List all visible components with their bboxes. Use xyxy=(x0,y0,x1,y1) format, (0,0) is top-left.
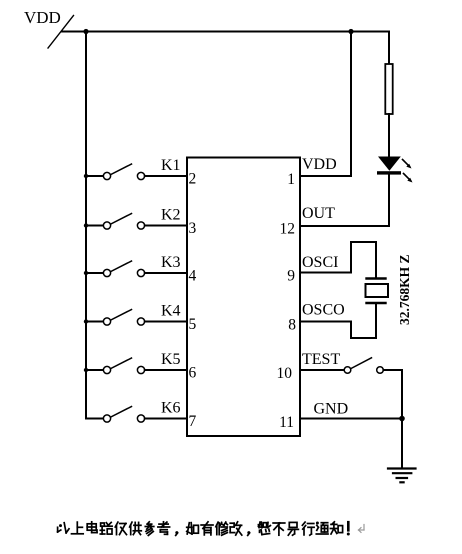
svg-text:10: 10 xyxy=(277,365,293,382)
switch S7 TEST xyxy=(344,358,402,374)
svg-text:1: 1 xyxy=(287,171,295,188)
node junction top-left xyxy=(83,29,88,34)
wire left bus xyxy=(85,32,87,419)
switch K5 xyxy=(84,351,187,374)
wire GND pin 11 xyxy=(300,418,402,420)
node junction top-right xyxy=(348,29,353,34)
wire resistor branch top xyxy=(388,32,390,65)
wire top VDD rail xyxy=(62,31,389,33)
wire OSCI pin 9 to crystal xyxy=(300,242,376,278)
svg-text:8: 8 xyxy=(288,317,296,334)
IC U1 body xyxy=(187,158,300,437)
svg-text:OSCO: OSCO xyxy=(302,302,345,319)
svg-text:OSCI: OSCI xyxy=(302,254,338,271)
wire LED to OUT xyxy=(388,175,390,226)
power symbol slash xyxy=(48,16,74,49)
svg-text:K5: K5 xyxy=(161,351,181,368)
switch K6 xyxy=(86,400,187,423)
svg-text:32.768KH Z: 32.768KH Z xyxy=(397,254,412,325)
resistor R1 xyxy=(385,64,392,114)
svg-text:K4: K4 xyxy=(161,303,181,320)
svg-text:11: 11 xyxy=(279,414,294,431)
svg-text:5: 5 xyxy=(189,316,197,333)
svg-text:VDD: VDD xyxy=(302,156,337,173)
switch K1 xyxy=(84,157,187,180)
svg-text:VDD: VDD xyxy=(24,8,61,27)
crystal Y1 32.768KHZ xyxy=(366,279,389,304)
svg-text:2: 2 xyxy=(189,171,197,188)
switch K2 xyxy=(84,207,187,230)
node junction GND xyxy=(399,416,405,422)
svg-text:9: 9 xyxy=(287,268,295,285)
wire resistor to LED xyxy=(388,114,390,157)
svg-text:K1: K1 xyxy=(161,157,181,174)
caption note (Chinese) drawn as vector strokes xyxy=(58,522,364,536)
wire OSCO pin 8 to crystal xyxy=(300,304,376,338)
svg-text:K6: K6 xyxy=(161,400,181,417)
svg-text:K3: K3 xyxy=(161,254,181,271)
svg-text:OUT: OUT xyxy=(302,205,335,222)
switch K3 xyxy=(84,254,187,277)
svg-text:6: 6 xyxy=(189,365,197,382)
svg-text:TEST: TEST xyxy=(302,351,340,368)
wire pin1 to VDD rail xyxy=(300,32,351,177)
svg-text:12: 12 xyxy=(280,221,296,238)
svg-text:4: 4 xyxy=(189,268,197,285)
svg-text:3: 3 xyxy=(189,220,197,237)
svg-text:K2: K2 xyxy=(161,207,181,224)
LED D1 xyxy=(377,157,413,183)
wire TEST switch to GND net xyxy=(401,370,403,419)
svg-text:GND: GND xyxy=(314,401,349,418)
ground symbol xyxy=(388,469,416,483)
wire OUT pin 12 xyxy=(300,225,389,227)
wire to ground symbol xyxy=(401,419,403,469)
svg-text:7: 7 xyxy=(189,413,197,430)
switch K4 xyxy=(84,303,187,326)
wire TEST pin 10 xyxy=(300,369,344,371)
